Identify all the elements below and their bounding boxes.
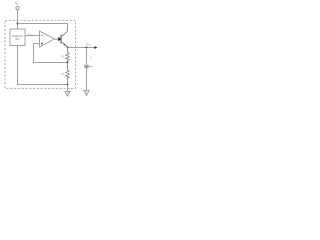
svg-text:R2: R2	[61, 72, 65, 76]
wire: op-amp output to base	[55, 38, 59, 40]
bandgap reference block U1	[10, 29, 25, 46]
input terminal Vin	[15, 2, 20, 10]
output arrowhead	[94, 46, 97, 49]
ground arrow right	[84, 90, 89, 95]
wire: top supply rail to collector	[18, 24, 68, 32]
node: feedback tap	[67, 62, 69, 64]
wire: Vref to op-amp non-inverting input	[25, 35, 40, 37]
arrowhead into base	[58, 37, 61, 41]
ground arrow left	[65, 85, 70, 97]
dashed enclosure box	[5, 21, 76, 89]
resistor R2	[61, 63, 69, 85]
wire: cap branch down	[86, 48, 88, 91]
node: Vout/emitter junction	[67, 47, 69, 49]
wire: Vout line to output terminal	[68, 47, 95, 49]
svg-text:CL: CL	[90, 56, 93, 60]
op-amp U2	[40, 31, 55, 47]
node: ground rail junction	[67, 84, 69, 86]
node: Vin junction	[17, 23, 19, 25]
svg-text:Vout: Vout	[86, 42, 91, 46]
svg-text:Vin: Vin	[15, 2, 20, 7]
svg-text:Vref: Vref	[28, 32, 32, 36]
wire: feedback from divider to op-amp inverting input	[34, 44, 68, 63]
resistor R1	[61, 48, 69, 63]
transistor Q1	[61, 31, 73, 47]
wire: Vin terminal down into box	[17, 10, 19, 29]
svg-text:Q1: Q1	[69, 37, 73, 39]
node: cap tap junction	[86, 47, 88, 49]
svg-text:R1: R1	[61, 55, 65, 59]
capacitor C1 symbol	[84, 65, 92, 68]
svg-text:REF.: REF.	[15, 39, 20, 41]
svg-text:BANDGAP: BANDGAP	[12, 35, 24, 38]
wire: bandgap ground return + bottom rail	[18, 46, 68, 85]
